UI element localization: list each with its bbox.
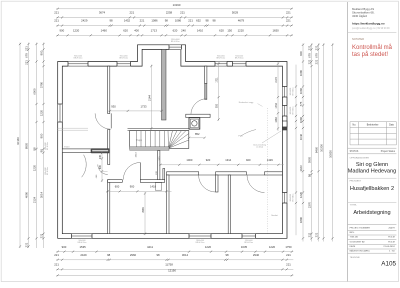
- svg-text:240: 240: [181, 28, 186, 32]
- svg-text:Trapp: Trapp: [136, 139, 143, 142]
- svg-text:221: 221: [308, 45, 312, 50]
- svg-text:900: 900: [40, 133, 44, 138]
- svg-text:10160: 10160: [16, 137, 20, 145]
- svg-text:98: 98: [165, 19, 169, 23]
- svg-text:1086: 1086: [151, 19, 158, 23]
- svg-text:1080: 1080: [299, 69, 303, 76]
- svg-text:2940: 2940: [253, 253, 260, 257]
- svg-text:No.: No.: [353, 125, 357, 127]
- svg-text:2144: 2144: [147, 95, 151, 101]
- svg-text:STATUS: STATUS: [350, 150, 359, 153]
- svg-text:221: 221: [40, 233, 44, 238]
- svg-text:1220: 1220: [73, 28, 80, 32]
- svg-text:852: 852: [195, 132, 200, 136]
- svg-text:10820: 10820: [329, 150, 333, 158]
- svg-text:221: 221: [54, 262, 59, 266]
- svg-text:Madland Hedevang: Madland Hedevang: [348, 168, 397, 174]
- svg-text:2258: 2258: [166, 11, 173, 15]
- svg-text:Siri og Glenn: Siri og Glenn: [356, 162, 388, 168]
- svg-text:1080: 1080: [275, 117, 278, 123]
- svg-text:920: 920: [216, 103, 219, 108]
- svg-text:REV.: REV.: [350, 232, 355, 234]
- svg-text:A105: A105: [381, 261, 396, 268]
- svg-text:OPPDRAGSGIVER: OPPDRAGSGIVER: [350, 157, 370, 160]
- svg-text:BR-H:10xx: BR-H:10xx: [74, 58, 83, 60]
- svg-text:920: 920: [206, 158, 211, 162]
- svg-text:900: 900: [130, 184, 135, 188]
- svg-text:98: 98: [156, 253, 160, 257]
- svg-text:221: 221: [315, 232, 319, 237]
- svg-text:2124: 2124: [33, 196, 37, 203]
- svg-text:221: 221: [25, 60, 29, 65]
- svg-text:1721: 1721: [216, 77, 219, 83]
- svg-text:98: 98: [107, 253, 111, 257]
- svg-text:221: 221: [286, 19, 291, 23]
- svg-text:DATE: DATE: [350, 245, 356, 248]
- svg-text:1086: 1086: [299, 87, 303, 94]
- svg-text:H.G.M: H.G.M: [388, 237, 394, 239]
- svg-text:BR-H:10xx: BR-H:10xx: [47, 167, 49, 175]
- svg-text:221: 221: [54, 253, 59, 257]
- svg-text:BR-H:19xx: BR-H:19xx: [244, 242, 253, 244]
- svg-text:BR-H:10xx: BR-H:10xx: [119, 58, 128, 60]
- svg-text:BR-H:10xx: BR-H:10xx: [216, 58, 225, 60]
- svg-text:830: 830: [99, 164, 102, 169]
- svg-text:620: 620: [173, 28, 178, 32]
- svg-text:4679: 4679: [238, 19, 245, 23]
- svg-text:PROJECT NUMBER: PROJECT NUMBER: [350, 227, 371, 229]
- svg-text:Dato: Dato: [389, 124, 395, 127]
- svg-text:2960: 2960: [130, 253, 137, 257]
- svg-text:BR-H:10xx: BR-H:10xx: [292, 106, 294, 114]
- svg-text:900: 900: [59, 28, 64, 32]
- svg-text:221: 221: [129, 11, 134, 15]
- svg-text:1460: 1460: [101, 28, 108, 32]
- svg-text:1914: 1914: [136, 152, 138, 158]
- svg-text:Beskrivelse: Beskrivelse: [367, 124, 379, 127]
- svg-text:1429: 1429: [267, 158, 273, 162]
- svg-text:98: 98: [225, 253, 229, 257]
- svg-text:1 : 50: 1 : 50: [389, 250, 395, 252]
- svg-text:221: 221: [308, 232, 312, 237]
- svg-text:5029: 5029: [232, 11, 239, 15]
- svg-text:2170: 2170: [275, 77, 278, 83]
- svg-text:6000: 6000: [33, 88, 37, 95]
- svg-text:2429: 2429: [80, 253, 87, 257]
- svg-text:20479: 20479: [389, 227, 396, 229]
- svg-text:1423: 1423: [299, 165, 303, 172]
- svg-text:MÅLESTOKK (ARK): MÅLESTOKK (ARK): [350, 249, 370, 252]
- svg-text:11758: 11758: [165, 262, 173, 266]
- svg-text:4411: 4411: [147, 245, 153, 249]
- svg-text:TITTEL: TITTEL: [350, 205, 358, 207]
- svg-text:BR-H:10xx: BR-H:10xx: [292, 87, 294, 95]
- svg-text:1535: 1535: [79, 245, 86, 249]
- svg-text:1650: 1650: [272, 28, 279, 32]
- svg-text:3674: 3674: [99, 11, 106, 15]
- svg-text:1000: 1000: [186, 158, 192, 162]
- svg-text:1220: 1220: [33, 164, 37, 171]
- svg-text:400: 400: [134, 28, 139, 32]
- svg-text:1635: 1635: [241, 245, 248, 249]
- svg-text:BR-H:10xx: BR-H:10xx: [171, 41, 180, 43]
- svg-text:1220: 1220: [205, 245, 212, 249]
- svg-text:221: 221: [25, 46, 29, 51]
- svg-text:post@meklandbygg.no | 99 99: post@meklandbygg.no | 99 99 99 99: [352, 27, 390, 30]
- svg-text:98: 98: [33, 147, 37, 151]
- svg-text:1086: 1086: [175, 19, 182, 23]
- svg-text:Entré: Entré: [64, 146, 70, 149]
- svg-text:tas på stedet!: tas på stedet!: [352, 51, 388, 58]
- svg-text:1410: 1410: [197, 28, 204, 32]
- svg-text:BR-H:19xx: BR-H:19xx: [196, 242, 205, 244]
- svg-text:10200: 10200: [320, 144, 324, 152]
- svg-text:2429: 2429: [81, 19, 88, 23]
- svg-text:2965: 2965: [142, 207, 145, 213]
- svg-text:PROSJEKT: PROSJEKT: [350, 181, 362, 183]
- svg-text:1086: 1086: [299, 116, 303, 123]
- svg-text:TGN. AV: TGN. AV: [350, 236, 359, 239]
- svg-text:221: 221: [25, 242, 29, 247]
- svg-text:NOTATER: NOTATER: [352, 37, 364, 41]
- svg-text:TEGN.NR.: TEGN.NR.: [350, 257, 361, 259]
- svg-text:221: 221: [140, 19, 145, 23]
- svg-text:1046: 1046: [299, 133, 303, 140]
- svg-text:930: 930: [111, 105, 116, 109]
- svg-text:679: 679: [315, 53, 319, 58]
- svg-text:BR-H:10xx: BR-H:10xx: [47, 142, 49, 150]
- svg-text:1713: 1713: [151, 28, 158, 32]
- svg-text:4330 Ålgård: 4330 Ålgård: [352, 13, 368, 18]
- svg-text:1733: 1733: [275, 102, 278, 108]
- svg-text:679: 679: [308, 53, 312, 58]
- svg-text:8905: 8905: [25, 142, 29, 149]
- svg-text:Senket: Senket: [271, 214, 278, 217]
- svg-text:Husafjellbakken 2: Husafjellbakken 2: [350, 186, 394, 192]
- svg-text:8460: 8460: [315, 146, 319, 153]
- svg-text:4090: 4090: [25, 191, 29, 198]
- svg-text:1314: 1314: [225, 158, 231, 162]
- svg-text:3014: 3014: [182, 253, 189, 257]
- svg-text:1733: 1733: [141, 105, 147, 109]
- svg-text:98: 98: [308, 174, 312, 178]
- svg-text:1220: 1220: [238, 28, 245, 32]
- svg-text:21-04-2024: 21-04-2024: [383, 246, 395, 248]
- svg-text:221: 221: [308, 59, 312, 64]
- svg-text:H.G.M: H.G.M: [388, 241, 394, 243]
- svg-text:3790: 3790: [40, 81, 44, 88]
- svg-text:150: 150: [227, 28, 232, 32]
- svg-text:3014: 3014: [40, 191, 44, 198]
- svg-text:98: 98: [40, 149, 44, 153]
- svg-text:221: 221: [315, 45, 319, 50]
- svg-text:1220: 1220: [40, 109, 44, 116]
- svg-text:98: 98: [109, 19, 113, 23]
- svg-text:Project Status: Project Status: [381, 150, 396, 153]
- svg-text:12190: 12190: [168, 269, 176, 273]
- svg-text:620: 620: [123, 28, 128, 32]
- svg-text:13190: 13190: [173, 3, 181, 7]
- svg-text:1452: 1452: [124, 19, 131, 23]
- svg-text:Kontrollmål må: Kontrollmål må: [352, 44, 393, 51]
- svg-text:900: 900: [40, 50, 44, 55]
- svg-text:221: 221: [286, 253, 291, 257]
- svg-text:https://meklandbygg.no: https://meklandbygg.no: [352, 21, 385, 25]
- svg-text:BR-H:10xx: BR-H:10xx: [235, 58, 244, 60]
- svg-text:620: 620: [219, 28, 224, 32]
- svg-text:245: 245: [99, 154, 102, 159]
- svg-text:BR-H:10xx: BR-H:10xx: [292, 193, 294, 201]
- svg-text:221: 221: [54, 11, 59, 15]
- svg-text:BR-H:19xx: BR-H:19xx: [78, 242, 87, 244]
- svg-text:920: 920: [246, 158, 251, 162]
- svg-text:1220: 1220: [299, 191, 303, 198]
- svg-text:2370: 2370: [308, 201, 312, 208]
- svg-text:221: 221: [188, 19, 193, 23]
- svg-text:GODKJENT AV: GODKJENT AV: [350, 240, 366, 243]
- svg-text:221: 221: [54, 19, 59, 23]
- svg-text:5905: 5905: [308, 156, 312, 163]
- svg-text:1750: 1750: [285, 245, 292, 249]
- svg-text:98: 98: [205, 19, 209, 23]
- svg-text:652: 652: [196, 19, 201, 23]
- svg-text:221: 221: [286, 11, 291, 15]
- svg-text:775: 775: [299, 101, 303, 106]
- svg-text:1410: 1410: [150, 184, 156, 188]
- svg-text:Arbeidstegning: Arbeidstegning: [353, 210, 390, 216]
- svg-text:900: 900: [299, 51, 303, 56]
- svg-text:221: 221: [286, 262, 291, 266]
- svg-text:600: 600: [115, 184, 120, 188]
- svg-text:98: 98: [212, 19, 216, 23]
- svg-text:679: 679: [25, 53, 29, 58]
- svg-text:1890: 1890: [299, 216, 303, 223]
- svg-text:900: 900: [62, 245, 67, 249]
- svg-text:221: 221: [180, 11, 185, 15]
- svg-text:se detalj: se detalj: [256, 146, 263, 149]
- svg-text:Nedsenket vegg: Nedsenket vegg: [239, 101, 253, 104]
- svg-text:221: 221: [315, 59, 319, 64]
- svg-text:1220: 1220: [269, 245, 276, 249]
